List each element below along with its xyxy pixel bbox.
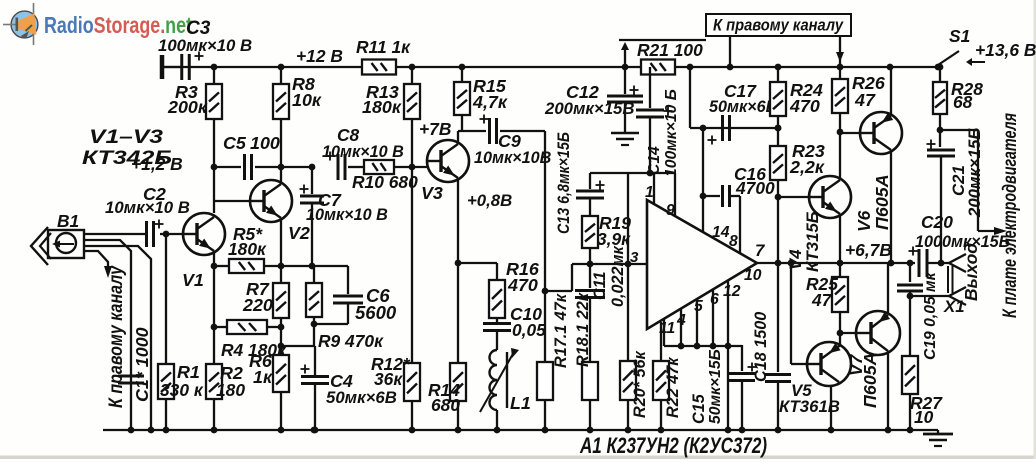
svg-text:R21 100: R21 100 xyxy=(637,40,703,60)
svg-text:47: 47 xyxy=(811,290,833,310)
svg-text:V6: V6 xyxy=(854,210,874,232)
svg-text:10: 10 xyxy=(914,407,934,427)
svg-text:50мк×6В: 50мк×6В xyxy=(709,98,778,116)
svg-text:47: 47 xyxy=(854,90,876,110)
svg-text:А1 К237УН2 (К2УС372): А1 К237УН2 (К2УС372) xyxy=(579,433,767,458)
svg-text:C8: C8 xyxy=(337,125,360,145)
svg-text:68: 68 xyxy=(953,92,973,112)
svg-text:2,2к: 2,2к xyxy=(789,157,825,177)
svg-text:R11 1к: R11 1к xyxy=(356,37,411,57)
svg-text:6: 6 xyxy=(710,291,719,308)
svg-text:+12 В: +12 В xyxy=(296,46,343,66)
svg-text:+7В: +7В xyxy=(419,119,451,139)
svg-text:180к: 180к xyxy=(362,97,402,117)
svg-text:100мк×10 Б: 100мк×10 Б xyxy=(663,89,680,177)
svg-text:3,9к: 3,9к xyxy=(597,229,631,249)
svg-text:36к: 36к xyxy=(374,369,403,389)
svg-text:Выход: Выход xyxy=(961,243,981,301)
svg-text:R22 47к: R22 47к xyxy=(664,357,682,418)
svg-text:0,05: 0,05 xyxy=(512,320,546,340)
svg-text:R20* 56к: R20* 56к xyxy=(631,351,649,418)
svg-text:R4 180к: R4 180к xyxy=(221,340,287,360)
svg-text:V1: V1 xyxy=(182,270,204,290)
svg-text:К правому каналу: К правому каналу xyxy=(106,265,127,408)
svg-text:+6,7В: +6,7В xyxy=(845,240,892,260)
svg-text:470: 470 xyxy=(789,96,820,116)
svg-text:В1: В1 xyxy=(57,211,79,231)
svg-text:10мк×10 В: 10мк×10 В xyxy=(322,143,404,161)
svg-text:5: 5 xyxy=(694,298,703,315)
svg-text:R9 470к: R9 470к xyxy=(318,331,384,351)
svg-text:C18 1500: C18 1500 xyxy=(752,312,770,382)
svg-text:П605А: П605А xyxy=(860,352,880,408)
svg-text:V2: V2 xyxy=(288,223,310,243)
svg-text:50мк×15Б: 50мк×15Б xyxy=(707,349,724,424)
svg-text:C19 0,05 мк: C19 0,05 мк xyxy=(922,271,939,360)
svg-text:КТ315Б: КТ315Б xyxy=(803,211,822,272)
svg-text:100: 100 xyxy=(250,133,280,153)
svg-text:C9: C9 xyxy=(498,131,521,151)
svg-text:200к: 200к xyxy=(167,97,208,117)
svg-text:R17.1 47к: R17.1 47к xyxy=(552,293,570,368)
svg-text:220: 220 xyxy=(242,295,273,315)
svg-text:R1: R1 xyxy=(177,362,200,382)
svg-text:5600: 5600 xyxy=(355,302,397,323)
svg-text:К плате электродвигателя: К плате электродвигателя xyxy=(999,113,1021,318)
svg-text:0,022мк: 0,022мк xyxy=(609,246,627,307)
svg-text:10к: 10к xyxy=(292,90,322,110)
svg-text:+13,6 В: +13,6 В xyxy=(975,40,1036,60)
svg-text:C15: C15 xyxy=(690,393,708,424)
svg-text:3: 3 xyxy=(630,249,639,266)
svg-text:10: 10 xyxy=(744,267,762,284)
svg-text:L1: L1 xyxy=(510,393,531,413)
svg-text:X1: X1 xyxy=(943,297,965,316)
svg-text:R10 680: R10 680 xyxy=(352,172,418,192)
svg-text:R18.1 22к: R18.1 22к xyxy=(574,292,592,367)
svg-text:470: 470 xyxy=(507,275,538,295)
svg-text:180: 180 xyxy=(216,380,245,400)
svg-text:V1–V3: V1–V3 xyxy=(89,127,164,148)
svg-text:8: 8 xyxy=(729,233,738,250)
svg-text:680: 680 xyxy=(431,395,460,415)
svg-text:RadioStorage.net: RadioStorage.net xyxy=(44,12,192,38)
svg-text:П605А: П605А xyxy=(872,174,892,230)
svg-text:200мк×15Б: 200мк×15Б xyxy=(965,128,984,218)
svg-text:10мк×10В: 10мк×10В xyxy=(474,149,552,167)
svg-text:4,7к: 4,7к xyxy=(472,92,508,112)
svg-text:4: 4 xyxy=(676,312,686,329)
svg-text:К правому каналу: К правому каналу xyxy=(713,17,844,35)
svg-text:КТ342Б: КТ342Б xyxy=(82,148,172,169)
svg-text:C20: C20 xyxy=(921,212,953,232)
svg-text:C13 6,8мк×15Б: C13 6,8мк×15Б xyxy=(555,132,573,234)
svg-text:1к: 1к xyxy=(253,367,273,387)
svg-text:C5: C5 xyxy=(223,133,247,153)
svg-text:S1: S1 xyxy=(949,26,970,46)
svg-text:10мк×10 В: 10мк×10 В xyxy=(105,198,190,217)
svg-text:50мк×6В: 50мк×6В xyxy=(326,388,397,407)
svg-text:14: 14 xyxy=(712,224,730,241)
svg-text:C14: C14 xyxy=(646,146,663,175)
svg-text:180к: 180к xyxy=(228,239,267,259)
svg-text:+0,8В: +0,8В xyxy=(467,191,512,210)
svg-text:V3: V3 xyxy=(421,183,443,203)
svg-text:330 к: 330 к xyxy=(160,380,204,400)
svg-text:7: 7 xyxy=(755,241,765,260)
svg-text:100мк×10 В: 100мк×10 В xyxy=(158,36,252,55)
svg-text:10мк×10 В: 10мк×10 В xyxy=(306,206,388,224)
svg-text:200мк×15В: 200мк×15В xyxy=(544,99,635,118)
svg-text:C1* 1000: C1* 1000 xyxy=(132,327,152,402)
svg-text:C11: C11 xyxy=(591,272,609,301)
svg-text:12: 12 xyxy=(723,283,741,300)
